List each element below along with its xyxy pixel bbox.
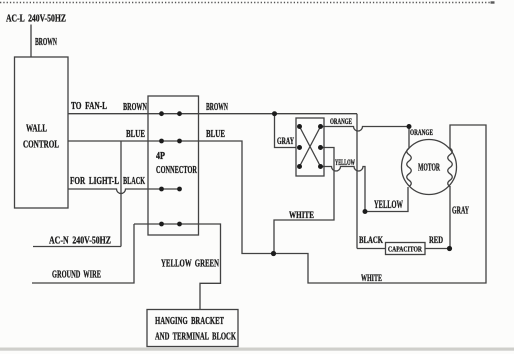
svg-text:MOTOR: MOTOR (418, 162, 441, 174)
wire gray switch feed (275, 114, 297, 148)
svg-text:GRAY: GRAY (452, 206, 469, 217)
svg-text:AC-L 240V-50HZ: AC-L 240V-50HZ (6, 13, 66, 25)
svg-text:GROUND WIRE: GROUND WIRE (52, 269, 101, 281)
wire yellow from switch bottom with hops (321, 167, 366, 212)
svg-text:AND TERMINAL BLOCK: AND TERMINAL BLOCK (155, 332, 236, 343)
junction dot row3 pin b (177, 187, 182, 192)
4P connector box (148, 96, 199, 235)
switch terminal right bottom (318, 164, 323, 169)
dark dash blob at dotted border end (491, 1, 495, 3)
svg-text:FOR LIGHT-L: FOR LIGHT-L (70, 176, 119, 187)
svg-text:GRAY: GRAY (277, 136, 294, 146)
motor left winding (407, 148, 412, 186)
wire white from switch middle (274, 148, 334, 254)
junction dot orange motor (407, 124, 412, 129)
wire red from capacitor (425, 248, 450, 250)
junction dot brown tap (272, 111, 277, 116)
svg-text:BROWN: BROWN (206, 102, 228, 113)
svg-text:BROWN: BROWN (35, 37, 57, 48)
switch box (296, 118, 324, 176)
switch diagonal 2 (300, 127, 321, 167)
junction dot yellow (363, 209, 368, 214)
svg-text:BLACK: BLACK (123, 176, 145, 187)
junction dot row4 pin b (177, 222, 182, 227)
junction dot row2 pin a (159, 139, 164, 144)
svg-text:YELLOW: YELLOW (374, 197, 403, 211)
junction dot row4 pin a (159, 222, 164, 227)
wire orange with hop (321, 127, 410, 149)
junction dot row3 pin a (159, 187, 164, 192)
wire white return loop (271, 125, 486, 283)
svg-text:BLUE: BLUE (206, 129, 225, 140)
junction dot row2 pin b (177, 139, 182, 144)
svg-text:YELLOW: YELLOW (335, 158, 355, 167)
wire black row3 light-L with hop (68, 189, 180, 194)
wire blue row2 (68, 141, 271, 254)
capacitor box (386, 243, 426, 255)
wire brown row1 fan-L (68, 113, 357, 115)
hanging bracket box (147, 310, 238, 347)
switch terminal right mid (318, 145, 323, 150)
page top perforation dotted border (0, 2, 495, 4)
wire black vertical from brown to capacitor (356, 114, 358, 249)
wire AC-L drop to wall control (30, 25, 32, 58)
svg-text:HANGING BRACKET: HANGING BRACKET (155, 316, 224, 327)
junction dot red (447, 246, 452, 251)
svg-text:WALL: WALL (26, 124, 47, 135)
motor circle (402, 140, 457, 195)
wire AC-N vertical (120, 141, 122, 247)
svg-text:BLUE: BLUE (126, 129, 145, 140)
switch diagonal 1 (300, 127, 321, 167)
wire ground horizontal (32, 224, 134, 283)
page bottom scan edge band (0, 348, 514, 351)
svg-text:CONTROL: CONTROL (23, 140, 59, 151)
svg-text:TO FAN-L: TO FAN-L (71, 101, 107, 112)
wall control box (15, 57, 69, 208)
junction dot white (271, 251, 276, 256)
svg-text:CONNECTOR: CONNECTOR (156, 165, 197, 176)
svg-text:WHITE: WHITE (289, 210, 314, 220)
svg-text:ORANGE: ORANGE (410, 128, 433, 137)
wire AC-N horizontal (33, 246, 121, 248)
wire yellow-green row4 (134, 224, 221, 310)
svg-text:4P: 4P (156, 151, 165, 162)
junction dot row1 pin a (159, 111, 164, 116)
svg-text:BLACK: BLACK (359, 235, 383, 245)
junction dot row1 pin b (177, 111, 182, 116)
wire black to capacitor (357, 248, 386, 250)
svg-text:CAPACITOR: CAPACITOR (388, 245, 422, 254)
wire yellow to motor (365, 187, 408, 212)
svg-text:ORANGE: ORANGE (330, 117, 352, 126)
svg-text:AC-N 240V-50HZ: AC-N 240V-50HZ (49, 235, 111, 247)
svg-text:WHITE: WHITE (361, 273, 382, 283)
switch terminal left mid (297, 145, 302, 150)
switch terminal left bottom (297, 164, 302, 169)
switch terminal right top (318, 124, 323, 129)
svg-text:RED: RED (429, 235, 443, 245)
switch terminal left top (297, 124, 302, 129)
wire gray motor to red (449, 186, 451, 249)
svg-text:BROWN: BROWN (123, 102, 147, 113)
svg-text:YELLOW GREEN: YELLOW GREEN (161, 258, 219, 270)
motor right winding (448, 148, 453, 186)
